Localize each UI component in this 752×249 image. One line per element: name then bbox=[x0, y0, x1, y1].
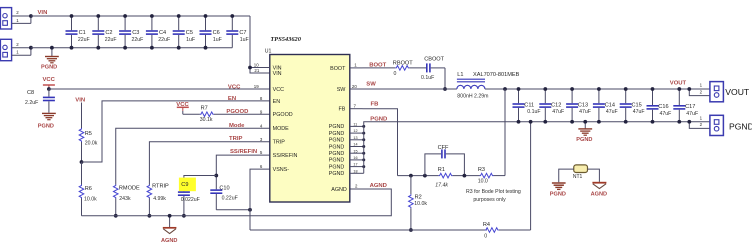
net tie NT1 bbox=[573, 165, 588, 180]
ground PGND under output caps bbox=[576, 120, 592, 143]
svg-text:C7: C7 bbox=[239, 30, 246, 36]
pin FB 7 bbox=[339, 103, 363, 112]
J2 pin 2 stub bbox=[12, 42, 31, 48]
svg-text:243k: 243k bbox=[119, 196, 131, 202]
svg-text:C9: C9 bbox=[181, 182, 188, 188]
svg-text:TRIP: TRIP bbox=[273, 140, 286, 146]
net label Mode bbox=[229, 123, 245, 129]
net label FB bbox=[371, 102, 379, 108]
capacitor C3 bbox=[119, 14, 143, 50]
capacitor C15 47uF bbox=[620, 87, 645, 124]
svg-text:47uF: 47uF bbox=[633, 109, 645, 115]
pin EN 8 bbox=[260, 96, 280, 105]
power flag VCC bbox=[43, 77, 56, 88]
pin PGND 16 bbox=[329, 156, 366, 164]
svg-text:PGND: PGND bbox=[576, 137, 592, 143]
node R3 tap on VOUT bbox=[503, 87, 507, 91]
wire FB row bbox=[398, 175, 439, 177]
pin PGOOD 9 bbox=[260, 109, 293, 118]
net label AGND (pin2) bbox=[370, 183, 387, 189]
capacitor C6 bbox=[200, 14, 222, 50]
wire J2 pins tie bbox=[29, 46, 33, 56]
capacitor C9 0.022uF (highlighted) bbox=[178, 182, 200, 218]
resistor RBOOT 0 bbox=[363, 61, 414, 77]
svg-text:FB: FB bbox=[339, 107, 346, 113]
label PGND (connector) bbox=[729, 121, 752, 131]
svg-text:17: 17 bbox=[353, 163, 357, 167]
pin PGND 12 bbox=[329, 129, 366, 137]
svg-text:16: 16 bbox=[353, 156, 357, 160]
pin AGND 2 bbox=[331, 184, 358, 193]
capacitor C13 47uF bbox=[566, 87, 591, 124]
svg-text:purposes only: purposes only bbox=[473, 197, 506, 203]
svg-text:4.99k: 4.99k bbox=[153, 196, 166, 202]
svg-text:PGND: PGND bbox=[729, 121, 752, 131]
wire VOUT rail bbox=[485, 88, 689, 90]
svg-text:XAL7070-801MEB: XAL7070-801MEB bbox=[473, 72, 520, 78]
wire VOUT connector tie bbox=[687, 87, 710, 96]
pin PGND 17 bbox=[329, 163, 366, 171]
svg-text:AGND: AGND bbox=[331, 187, 347, 193]
svg-text:PGND: PGND bbox=[329, 158, 345, 164]
net label SS/REFIN bbox=[230, 149, 257, 155]
svg-text:PGOOD: PGOOD bbox=[226, 109, 248, 115]
svg-text:14: 14 bbox=[353, 143, 357, 147]
resistor R4 0 bbox=[483, 222, 531, 239]
node VIN junction at J1 bbox=[29, 14, 33, 18]
capacitor C4 bbox=[146, 14, 170, 50]
pin PGND 18 bbox=[329, 169, 364, 177]
ground PGND under C8 bbox=[38, 113, 56, 129]
wire R4 up to PGND rail bbox=[529, 120, 533, 230]
capacitor C7 bbox=[226, 14, 248, 48]
svg-text:VOUT: VOUT bbox=[670, 81, 687, 87]
svg-text:CBOOT: CBOOT bbox=[424, 57, 444, 63]
svg-text:47uF: 47uF bbox=[606, 109, 618, 115]
node R2 tap bbox=[409, 174, 413, 178]
J1 pin 2 stub bbox=[12, 10, 31, 16]
J1 pin 1 stub bbox=[12, 18, 31, 24]
svg-text:PGND: PGND bbox=[329, 171, 345, 177]
resistor RMODE 243k bbox=[113, 185, 140, 218]
svg-text:22uF: 22uF bbox=[158, 37, 170, 43]
resistor R3 10.0 bbox=[478, 167, 505, 184]
power flag VCC (R7) bbox=[176, 102, 189, 111]
wire PGND connector tie bbox=[687, 120, 710, 129]
svg-text:0: 0 bbox=[484, 234, 487, 240]
pin VSNS- 6 bbox=[260, 164, 289, 173]
connector J PGND bbox=[700, 115, 724, 135]
svg-text:VCC: VCC bbox=[43, 77, 56, 83]
wire VIN pin10 branch bbox=[248, 66, 270, 70]
svg-text:800nH 2.29m: 800nH 2.29m bbox=[457, 94, 488, 100]
svg-text:10.0k: 10.0k bbox=[84, 196, 97, 202]
svg-text:PGND: PGND bbox=[329, 131, 345, 137]
svg-text:C13: C13 bbox=[578, 103, 588, 109]
svg-text:VIN: VIN bbox=[75, 98, 85, 104]
svg-text:C3: C3 bbox=[132, 30, 139, 36]
svg-text:R6: R6 bbox=[85, 186, 92, 192]
wire VIN rail drop to IC bbox=[250, 16, 270, 73]
resistor R5 20.0k bbox=[79, 103, 98, 163]
capacitor C10 0.22uF bbox=[210, 185, 237, 209]
svg-text:13: 13 bbox=[353, 136, 357, 140]
connector J VOUT bbox=[700, 82, 724, 102]
wire J1 pins tie bbox=[30, 16, 32, 23]
svg-text:0.1uF: 0.1uF bbox=[527, 109, 540, 115]
wire VSNS rail bbox=[250, 229, 487, 231]
svg-text:18: 18 bbox=[353, 169, 357, 173]
wire VCC rail to pin 19 bbox=[49, 88, 270, 90]
U1 title TPS543620 bbox=[270, 36, 301, 43]
pin PGND 15 bbox=[329, 149, 366, 157]
svg-text:AGND: AGND bbox=[370, 183, 387, 189]
svg-text:PGND: PGND bbox=[329, 124, 345, 130]
capacitor C11 0.1uF bbox=[513, 87, 541, 124]
svg-text:C12: C12 bbox=[551, 103, 561, 109]
pin PGND 14 bbox=[329, 143, 366, 151]
resistor R2 10.0k bbox=[409, 176, 428, 232]
wire CBOOT to SW bbox=[443, 68, 447, 91]
svg-text:AGND: AGND bbox=[161, 238, 177, 244]
pin PGND 11 bbox=[329, 123, 366, 131]
svg-text:0.1uF: 0.1uF bbox=[421, 75, 434, 81]
svg-text:VIN: VIN bbox=[38, 10, 48, 16]
svg-text:15: 15 bbox=[353, 149, 357, 153]
svg-text:PGND: PGND bbox=[329, 138, 345, 144]
inductor L1 XAL7070 bbox=[457, 72, 520, 100]
resistor R6 10.0k bbox=[79, 162, 97, 216]
svg-text:20: 20 bbox=[352, 84, 357, 89]
svg-text:2.2uF: 2.2uF bbox=[25, 100, 38, 106]
wire C10 bottom to VSNS bbox=[216, 208, 252, 212]
U1 refdes bbox=[265, 49, 272, 55]
svg-text:EN: EN bbox=[228, 96, 236, 102]
svg-text:RMODE: RMODE bbox=[119, 185, 140, 191]
svg-text:11: 11 bbox=[353, 123, 357, 127]
svg-text:PGND: PGND bbox=[329, 151, 345, 157]
svg-text:C1: C1 bbox=[79, 30, 86, 36]
ground AGND (NT1) bbox=[591, 183, 607, 198]
svg-text:1uF: 1uF bbox=[186, 37, 195, 43]
svg-text:10.0: 10.0 bbox=[478, 178, 488, 184]
svg-text:C15: C15 bbox=[632, 103, 642, 109]
label VOUT (connector) bbox=[725, 87, 750, 97]
svg-text:PGND: PGND bbox=[329, 144, 345, 150]
svg-text:0.022uF: 0.022uF bbox=[181, 197, 200, 203]
node CFF left bbox=[423, 174, 427, 178]
wire input ground rail bbox=[31, 47, 232, 49]
svg-text:C11: C11 bbox=[524, 103, 534, 109]
note R3 bode text bbox=[466, 189, 521, 203]
svg-text:47uF: 47uF bbox=[552, 109, 564, 115]
wire R3 to VOUT bbox=[504, 89, 506, 176]
svg-text:21: 21 bbox=[254, 68, 259, 73]
wire VSNS- net bbox=[250, 169, 270, 230]
svg-text:17.4k: 17.4k bbox=[435, 182, 448, 188]
wire C9 branch bbox=[184, 176, 216, 192]
svg-text:22uF: 22uF bbox=[132, 37, 144, 43]
pin TRIP 3 bbox=[260, 137, 285, 146]
net label VCC (pin19) bbox=[228, 84, 241, 90]
net label TRIP bbox=[229, 136, 242, 142]
svg-text:U1: U1 bbox=[265, 49, 272, 55]
ground PGND input symbol bbox=[41, 46, 59, 71]
ground PGND (NT1) bbox=[550, 183, 566, 197]
svg-text:VIN: VIN bbox=[273, 71, 282, 77]
net label VIN (R5) bbox=[75, 98, 85, 104]
net label BOOT bbox=[369, 63, 386, 69]
capacitor CFF bbox=[425, 145, 465, 176]
svg-text:0.22uF: 0.22uF bbox=[222, 196, 238, 202]
svg-text:PGND: PGND bbox=[329, 164, 345, 170]
wire FB net bbox=[363, 109, 398, 176]
svg-text:19: 19 bbox=[254, 84, 259, 89]
wire NT1 left bbox=[559, 169, 574, 182]
wire NT1 right bbox=[588, 169, 600, 182]
svg-text:L1: L1 bbox=[457, 72, 463, 78]
node C9 branch bbox=[214, 174, 218, 178]
svg-text:VCC: VCC bbox=[228, 84, 241, 90]
svg-text:FB: FB bbox=[371, 102, 379, 108]
svg-text:47uF: 47uF bbox=[686, 111, 698, 117]
wire SS/REFIN net bbox=[216, 155, 269, 189]
resistor R7 30.1k bbox=[183, 105, 270, 123]
svg-text:SW: SW bbox=[337, 87, 347, 93]
svg-text:R2: R2 bbox=[415, 195, 422, 201]
svg-text:SS/REFIN: SS/REFIN bbox=[273, 153, 298, 159]
svg-text:PGND: PGND bbox=[370, 117, 387, 123]
J2 pin 1 stub bbox=[12, 50, 31, 56]
capacitor C14 47uF bbox=[593, 87, 618, 124]
svg-text:R4: R4 bbox=[483, 222, 490, 228]
svg-text:22uF: 22uF bbox=[105, 37, 117, 43]
svg-text:PGND: PGND bbox=[38, 123, 54, 129]
capacitor C8 bbox=[25, 89, 55, 113]
net label PGND (IC) bbox=[370, 117, 387, 123]
capacitor C5 bbox=[173, 14, 195, 50]
svg-text:VCC: VCC bbox=[273, 87, 284, 93]
pin PGND 13 bbox=[329, 136, 366, 144]
svg-text:C16: C16 bbox=[658, 104, 668, 110]
svg-text:PGND: PGND bbox=[550, 191, 566, 197]
svg-text:C4: C4 bbox=[159, 30, 166, 36]
svg-text:C5: C5 bbox=[186, 30, 193, 36]
svg-text:30.1k: 30.1k bbox=[200, 117, 213, 123]
wire SW rail bbox=[363, 88, 457, 90]
wire TRIP net bbox=[149, 142, 269, 185]
svg-text:AGND: AGND bbox=[591, 191, 607, 197]
net label PGOOD bbox=[226, 109, 248, 115]
capacitor C2 bbox=[92, 14, 116, 50]
svg-text:1uF: 1uF bbox=[240, 37, 249, 43]
connector J1 (VIN input) bbox=[0, 8, 11, 29]
svg-text:10: 10 bbox=[254, 63, 259, 68]
svg-text:C2: C2 bbox=[105, 30, 112, 36]
capacitor C17 47uF bbox=[673, 87, 698, 124]
svg-text:12: 12 bbox=[353, 129, 357, 133]
wire AGND rail bbox=[82, 189, 392, 216]
pin VCC 19 bbox=[254, 84, 284, 93]
svg-text:R3 for Bode Plot testing: R3 for Bode Plot testing bbox=[466, 189, 521, 195]
svg-text:22uF: 22uF bbox=[78, 37, 90, 43]
net label EN bbox=[228, 96, 236, 102]
svg-text:47uF: 47uF bbox=[579, 109, 591, 115]
svg-text:PGND: PGND bbox=[41, 64, 57, 70]
capacitor C12 47uF bbox=[539, 87, 564, 124]
svg-text:SS/REFIN: SS/REFIN bbox=[230, 149, 257, 155]
resistor RTRIP 4.99k bbox=[147, 184, 169, 218]
op-amp U1 body bbox=[270, 55, 350, 203]
svg-text:C6: C6 bbox=[213, 30, 220, 36]
svg-text:R1: R1 bbox=[438, 167, 445, 173]
svg-text:VOUT: VOUT bbox=[725, 87, 750, 97]
node VCC bbox=[47, 87, 51, 91]
ground AGND symbol bottom-left bbox=[161, 214, 177, 244]
svg-text:R3: R3 bbox=[478, 167, 485, 173]
svg-text:C10: C10 bbox=[219, 185, 229, 191]
resistor R1 17.4k bbox=[435, 167, 479, 188]
svg-text:C8: C8 bbox=[27, 90, 34, 96]
svg-text:R7: R7 bbox=[201, 105, 208, 111]
wire Mode net bbox=[116, 128, 270, 184]
net label VIN bbox=[38, 10, 48, 16]
pin SW 20 bbox=[337, 84, 363, 93]
svg-text:47uF: 47uF bbox=[660, 111, 672, 117]
node EN divider bbox=[80, 160, 84, 164]
capacitor C16 47uF bbox=[647, 87, 672, 124]
connector J2 (PGND input) bbox=[0, 39, 11, 60]
svg-text:C17: C17 bbox=[685, 104, 695, 110]
wire EN to pin 8 bbox=[82, 101, 270, 162]
svg-text:0: 0 bbox=[394, 71, 397, 77]
svg-text:EN: EN bbox=[273, 99, 281, 105]
svg-text:20.0k: 20.0k bbox=[85, 140, 98, 146]
svg-text:VSNS-: VSNS- bbox=[273, 167, 290, 173]
svg-text:NT1: NT1 bbox=[573, 174, 583, 180]
pin VIN 10 bbox=[254, 63, 282, 72]
pin VIN 21 bbox=[254, 68, 281, 77]
svg-text:RTRIP: RTRIP bbox=[152, 184, 169, 190]
svg-text:SW: SW bbox=[366, 82, 376, 88]
wire VIN top rail bbox=[31, 15, 250, 17]
pin BOOT 1 bbox=[330, 63, 362, 72]
pin SS/REFIN 5 bbox=[260, 150, 298, 159]
svg-text:R5: R5 bbox=[85, 131, 92, 137]
svg-text:10.0k: 10.0k bbox=[414, 201, 427, 207]
net label VOUT bbox=[670, 81, 687, 87]
svg-text:C14: C14 bbox=[605, 103, 615, 109]
svg-text:BOOT: BOOT bbox=[330, 66, 346, 72]
wire PGND bus bbox=[364, 122, 690, 174]
capacitor C1 bbox=[66, 14, 90, 50]
svg-text:CFF: CFF bbox=[438, 145, 449, 151]
svg-text:PGOOD: PGOOD bbox=[273, 112, 293, 118]
svg-text:TPS543620: TPS543620 bbox=[270, 36, 301, 43]
capacitor CBOOT 0.1uF bbox=[409, 57, 445, 82]
svg-text:RBOOT: RBOOT bbox=[393, 61, 413, 67]
svg-text:MODE: MODE bbox=[273, 126, 290, 132]
highlight C9 bbox=[179, 178, 196, 192]
pin MODE 4 bbox=[260, 123, 289, 132]
net label SW bbox=[366, 82, 376, 88]
svg-text:1uF: 1uF bbox=[213, 37, 222, 43]
